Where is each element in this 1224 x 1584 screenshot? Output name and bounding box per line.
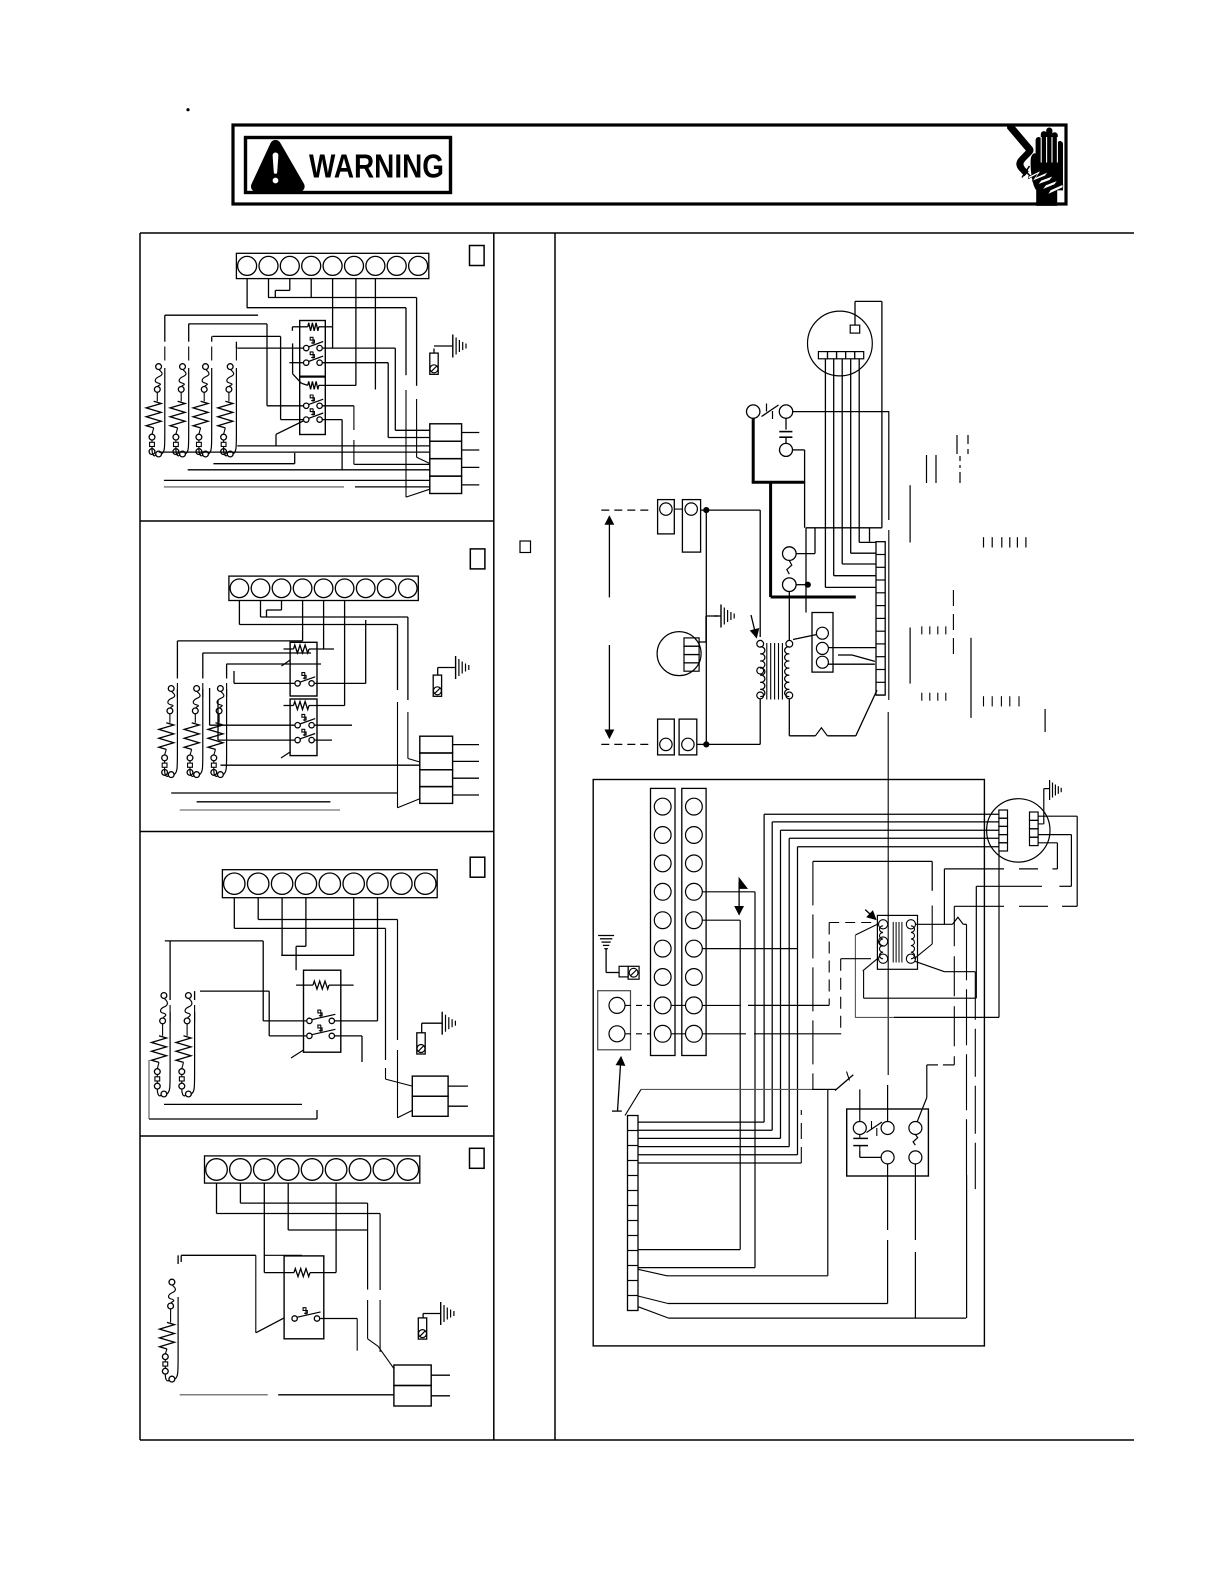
quick-connect plug QC1 — [430, 424, 480, 494]
wire loop — [162, 368, 165, 454]
wire — [788, 592, 790, 641]
wire — [281, 601, 283, 611]
wire — [793, 411, 889, 413]
wire — [176, 449, 180, 456]
wire — [157, 1062, 159, 1068]
blower motor BM — [808, 311, 873, 376]
wire — [827, 1089, 829, 1275]
wire — [881, 301, 883, 527]
wire — [213, 463, 294, 465]
circulator blower motor CBM — [987, 799, 1050, 862]
tick marks — [927, 455, 937, 483]
wire — [944, 868, 1004, 870]
wire — [638, 1162, 801, 1164]
wire — [952, 590, 954, 660]
motor harness wire — [638, 1154, 798, 1156]
contacts M3 — [304, 395, 324, 408]
wire — [190, 770, 194, 777]
wire — [274, 290, 276, 297]
wire — [975, 886, 977, 998]
wire — [638, 1296, 668, 1304]
wire — [374, 279, 376, 390]
junction ring — [203, 451, 209, 457]
wire — [266, 610, 268, 617]
tick marks — [957, 435, 968, 454]
wire — [180, 1255, 182, 1262]
tick marks — [984, 696, 1020, 706]
wire — [148, 1060, 150, 1119]
junction — [704, 508, 709, 513]
wire — [754, 892, 756, 1268]
wire — [315, 739, 332, 741]
panel3 label box — [470, 857, 485, 877]
wire — [355, 486, 430, 488]
wire — [281, 419, 304, 421]
induced draft blower IDB — [657, 632, 701, 676]
wire loop — [185, 368, 188, 454]
wire — [275, 434, 277, 446]
wire — [164, 486, 344, 488]
wire — [408, 759, 420, 763]
ground G3 — [422, 1012, 456, 1035]
wire — [177, 1255, 179, 1264]
wire — [966, 924, 968, 1175]
wire — [202, 653, 204, 697]
wire — [180, 809, 340, 811]
fuse link FL2 — [187, 755, 193, 775]
wire — [697, 743, 707, 745]
vertical tie wire — [705, 510, 707, 744]
wire — [416, 298, 418, 386]
wire — [226, 663, 321, 665]
relay terminal — [909, 1122, 922, 1135]
wire — [149, 1118, 317, 1120]
limit switch LS2 — [184, 993, 192, 1024]
wire — [320, 1318, 357, 1320]
IDB plug — [684, 638, 699, 671]
wire — [294, 453, 296, 464]
wire — [840, 959, 842, 1034]
wire — [828, 647, 876, 649]
warning banner outer frame — [233, 125, 1066, 204]
sequencer heater H2 — [284, 702, 345, 710]
wire — [199, 428, 201, 434]
wire loop — [200, 689, 203, 775]
tick marks — [959, 456, 961, 483]
wire — [217, 700, 219, 740]
legend square — [520, 541, 531, 553]
wire — [739, 920, 741, 1249]
svg-text:WARNING: WARNING — [309, 148, 444, 185]
junction — [704, 742, 709, 747]
warning label box — [246, 138, 451, 193]
wire — [355, 279, 357, 386]
wire — [295, 946, 297, 970]
heating element HE2 — [176, 1036, 191, 1063]
motor plug left — [999, 810, 1008, 851]
wire — [247, 307, 406, 309]
wire — [416, 399, 418, 457]
flame sensor arrow FS — [735, 878, 747, 914]
motor harness wire — [781, 829, 999, 831]
wire — [305, 898, 307, 947]
wire — [887, 1240, 889, 1304]
wire — [641, 1088, 812, 1090]
wire — [638, 1269, 667, 1276]
motor plug — [818, 352, 863, 359]
wire — [199, 449, 203, 456]
wire — [224, 449, 228, 456]
wire — [386, 1079, 413, 1086]
wire — [263, 1183, 265, 1273]
limit switch LS2 — [192, 686, 200, 714]
wire — [177, 640, 302, 642]
heating element HE1 — [152, 1036, 167, 1063]
wire — [209, 688, 211, 725]
wire — [825, 586, 876, 588]
wire — [612, 1110, 622, 1112]
junction ring — [227, 451, 233, 457]
wire — [323, 419, 343, 421]
wire — [246, 279, 248, 308]
capacitor terminal — [780, 443, 793, 456]
wire — [176, 428, 178, 434]
wire — [812, 861, 814, 1089]
wire — [856, 690, 877, 736]
ground screw plug — [619, 966, 639, 979]
pressure switch contact — [762, 404, 779, 420]
wire — [341, 420, 343, 470]
fuse link FL1 — [162, 755, 168, 775]
wire — [292, 343, 294, 373]
junction ring — [169, 1376, 175, 1382]
wire — [926, 1065, 928, 1098]
wire — [702, 1033, 746, 1035]
wire — [361, 1036, 363, 1062]
junction ring — [161, 1091, 167, 1097]
wire — [785, 418, 787, 429]
wire — [181, 1254, 256, 1256]
motor harness wire — [638, 1129, 772, 1131]
wire — [754, 1033, 841, 1035]
panel1 label box — [470, 246, 485, 266]
wire — [829, 922, 877, 924]
motor harness wire — [764, 813, 999, 815]
rollout switch RS — [783, 547, 797, 592]
panel4 label box — [470, 1148, 485, 1168]
wire — [218, 714, 220, 723]
wire — [1052, 868, 1057, 870]
wire — [789, 735, 815, 737]
wire — [851, 552, 876, 554]
wire — [838, 655, 875, 661]
motor harness wire — [763, 814, 765, 1122]
wire — [280, 336, 282, 419]
wire — [256, 1318, 284, 1333]
wire — [323, 405, 354, 407]
wire — [855, 1016, 894, 1018]
motor lead wire — [858, 359, 860, 543]
door interlock plug PL2 — [433, 675, 441, 696]
wire — [159, 451, 430, 453]
limit switch LS3 — [201, 364, 209, 393]
wire — [157, 1089, 161, 1096]
wire — [793, 635, 817, 640]
wire — [702, 1004, 740, 1006]
wire — [943, 869, 945, 924]
wire — [262, 941, 264, 1021]
wire — [859, 1089, 861, 1121]
fuse link FL3 — [196, 434, 202, 454]
wire — [887, 1164, 889, 1230]
junction ring — [194, 772, 200, 778]
terminal strip TB-2 — [229, 576, 418, 600]
wire — [267, 609, 282, 611]
door switch DS — [828, 1072, 854, 1091]
motor lead wire — [833, 359, 835, 576]
line voltage wire (heavy) — [769, 482, 772, 597]
wire — [162, 1024, 164, 1036]
wire — [1062, 905, 1077, 907]
wire — [397, 920, 399, 1041]
wire — [1038, 789, 1050, 824]
heating element HE1 — [146, 401, 161, 428]
wire — [182, 1089, 186, 1096]
heating element HE3 — [208, 723, 223, 750]
motor harness wire — [638, 1146, 789, 1148]
wire — [397, 1050, 399, 1118]
wire — [1076, 816, 1078, 906]
wire — [859, 541, 876, 543]
junction — [805, 582, 810, 587]
wire — [278, 1394, 394, 1396]
wire — [668, 1303, 888, 1305]
plug P4 — [679, 719, 697, 755]
wire — [706, 743, 760, 745]
wire — [189, 323, 268, 325]
relay contact — [853, 1121, 894, 1136]
fuse link FL1 — [162, 1354, 168, 1374]
wire — [1038, 842, 1057, 844]
wire — [914, 961, 944, 972]
sequencer box SEQ1 — [300, 321, 326, 377]
limit switch LS2 — [178, 364, 186, 393]
wire — [909, 628, 911, 684]
wire — [796, 584, 808, 586]
left column left border — [139, 233, 141, 1440]
wire — [182, 1062, 184, 1068]
wire — [854, 935, 856, 1017]
wire — [788, 699, 790, 736]
wire — [228, 392, 230, 401]
wire — [917, 1098, 927, 1123]
wire — [855, 924, 877, 935]
ground G1 — [434, 335, 466, 358]
wire — [398, 1110, 413, 1117]
sequencer heater H2 — [301, 381, 356, 389]
motor harness wire — [780, 830, 782, 1138]
door interlock plug PL4 — [418, 1318, 426, 1339]
wire — [218, 739, 294, 741]
ignition arrow — [865, 910, 876, 920]
wire — [180, 1394, 268, 1396]
left column right border — [493, 233, 495, 1440]
contacts M2 — [304, 352, 324, 366]
quick-connect plug QC3 — [412, 1076, 468, 1116]
wire — [263, 1020, 306, 1022]
wire — [638, 1307, 669, 1318]
wire — [887, 1085, 889, 1122]
ground G7 — [1050, 780, 1062, 800]
wire — [164, 479, 430, 481]
wire — [235, 342, 237, 361]
panel divider 2-3 — [140, 831, 494, 833]
wire — [368, 1339, 379, 1347]
wire — [405, 308, 407, 376]
plug P2 — [682, 500, 700, 552]
wire loop — [208, 368, 211, 454]
diagram top border — [140, 232, 1134, 234]
wire — [165, 770, 169, 777]
wire — [169, 941, 171, 1022]
wire — [214, 749, 216, 755]
wire — [944, 971, 975, 973]
wire loop — [167, 1012, 170, 1094]
wire — [667, 1275, 828, 1277]
wire — [421, 1023, 423, 1033]
wire — [239, 624, 397, 626]
sequencer box SEQ2 — [290, 699, 317, 756]
motor harness wire — [771, 822, 773, 1130]
quick-connect plug QC2 — [420, 736, 479, 803]
wire — [233, 671, 235, 683]
wire — [894, 1016, 999, 1018]
limit switch LS1 — [167, 686, 175, 714]
motor stud — [850, 325, 860, 333]
contacts M1 — [295, 673, 315, 687]
wire — [323, 362, 389, 364]
wire — [233, 898, 235, 929]
limit switch LS1 — [168, 1279, 176, 1309]
wire — [268, 279, 270, 298]
sequencer heater H1 — [264, 1269, 336, 1277]
door interlock plug PL3 — [417, 1033, 425, 1054]
sequencer heater H1 — [292, 323, 332, 331]
wire — [800, 1110, 802, 1163]
heating element HE4 — [218, 401, 233, 428]
wire — [224, 428, 226, 434]
ground G5 — [714, 605, 734, 628]
wire — [188, 324, 190, 361]
contacts M2 — [307, 1025, 336, 1039]
wire — [353, 406, 355, 430]
wire — [638, 1267, 755, 1269]
wire — [702, 919, 740, 921]
wire — [239, 1183, 241, 1203]
wire loop — [174, 689, 177, 775]
wire — [927, 1064, 938, 1066]
wire loop — [233, 368, 236, 454]
wire — [378, 1346, 394, 1368]
wire — [281, 752, 290, 758]
motor harness wire — [789, 837, 999, 839]
wire — [805, 528, 807, 613]
wire — [240, 1202, 367, 1204]
wire — [288, 1229, 367, 1231]
wire — [998, 851, 1000, 1018]
wire — [170, 1309, 172, 1323]
wire — [976, 885, 1042, 887]
strain relief jog — [953, 917, 964, 924]
wire — [793, 449, 805, 451]
wire — [169, 714, 171, 723]
wire — [395, 429, 430, 431]
wire — [869, 528, 871, 542]
wire — [974, 972, 976, 1189]
motor harness wire — [638, 1137, 781, 1139]
wire — [1059, 885, 1071, 887]
wire — [387, 363, 389, 438]
wire — [323, 601, 325, 650]
dashed field boundary — [601, 743, 653, 745]
wire — [385, 928, 387, 1060]
wire — [943, 1064, 954, 1066]
wire — [405, 390, 407, 497]
wire — [1019, 905, 1048, 907]
contacts M1 — [304, 337, 324, 351]
middle divider border — [554, 233, 556, 1440]
wire — [186, 1024, 188, 1036]
motor lead wire — [824, 359, 826, 588]
wire — [804, 450, 806, 528]
wire — [966, 1175, 968, 1318]
quick-connect plug QC4 — [394, 1365, 450, 1406]
heating element HE2 — [170, 401, 185, 428]
warning triangle icon — [251, 140, 304, 191]
wire — [437, 668, 439, 676]
limit switch LS4 — [226, 364, 234, 393]
wire — [394, 348, 396, 430]
wire — [257, 898, 259, 920]
heating element HE2 — [184, 723, 199, 750]
wire — [165, 1349, 167, 1354]
terminal strip TB-1 — [236, 253, 428, 278]
junction ring — [168, 772, 174, 778]
wire — [266, 324, 268, 406]
tick marks — [922, 693, 946, 701]
pressure switch PS — [747, 405, 793, 418]
wire — [315, 682, 366, 684]
junction ring — [156, 451, 162, 457]
wire — [834, 575, 876, 577]
wire — [302, 601, 304, 641]
motor harness wire — [638, 1121, 764, 1123]
wire — [332, 279, 334, 349]
diagram bottom border — [140, 1439, 1134, 1441]
stray dot — [187, 109, 189, 111]
contacts M1 — [307, 1010, 336, 1024]
wire — [674, 508, 682, 510]
fuse link FL3 — [211, 755, 217, 775]
low-voltage terminal strip TS — [876, 542, 885, 695]
wire — [190, 749, 192, 755]
junction ring — [218, 772, 224, 778]
wire — [702, 948, 797, 950]
wire — [813, 860, 932, 862]
wire — [963, 923, 966, 925]
wire — [748, 1004, 829, 1006]
wire — [397, 702, 399, 808]
